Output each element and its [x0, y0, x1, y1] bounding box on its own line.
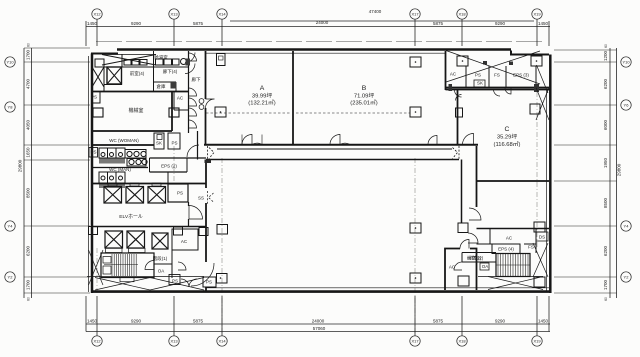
- NE room divider FS|EPS3: [505, 66, 507, 88]
- svg-text:廊下(4): 廊下(4): [163, 68, 178, 75]
- svg-text:60: 60: [27, 297, 31, 301]
- C room left wall: [457, 90, 459, 145]
- svg-text:60: 60: [604, 44, 608, 48]
- NE room divider AC|PS: [465, 66, 467, 88]
- WC corridor door: [187, 145, 199, 157]
- svg-text:71.09坪: 71.09坪: [354, 92, 375, 100]
- bottom dim stems: [85, 296, 87, 332]
- svg-text:C: C: [505, 126, 510, 133]
- svg-text:PS: PS: [172, 279, 178, 284]
- C room top wall: [446, 89, 551, 91]
- svg-text:4700: 4700: [26, 78, 31, 89]
- wall right of B / NE core left: [445, 51, 447, 90]
- hall wall columns: [89, 227, 98, 235]
- svg-text:Y10: Y10: [622, 60, 630, 65]
- svg-text:Y2: Y2: [8, 275, 14, 280]
- svg-text:(235.01㎡): (235.01㎡): [350, 99, 377, 107]
- WC man stalls: [99, 172, 125, 183]
- fixtures row kitchenette: [124, 60, 131, 66]
- AC SE room door: [460, 240, 469, 249]
- brace X left: [92, 67, 104, 87]
- svg-text:1950: 1950: [603, 157, 608, 168]
- svg-text:X18: X18: [458, 339, 466, 344]
- svg-text:Y6: Y6: [624, 103, 630, 108]
- svg-text:PS: PS: [171, 141, 177, 146]
- svg-text:X12: X12: [93, 12, 101, 17]
- AC room east of machine room: [174, 109, 189, 111]
- SE core top wall: [477, 228, 550, 230]
- svg-text:倉庫: 倉庫: [157, 83, 166, 90]
- door A left wall: [206, 99, 215, 108]
- svg-text:AC: AC: [506, 236, 513, 241]
- elevator shaft 2: [126, 187, 144, 204]
- exterior wall left thin outer: [88, 56, 90, 292]
- shaft top-left with X: [107, 67, 122, 84]
- right main dim line: [609, 48, 611, 298]
- dashed interior lines: [206, 112, 410, 114]
- svg-text:DS: DS: [539, 235, 545, 240]
- svg-text:X17: X17: [411, 12, 419, 17]
- corridor doors C area: [455, 90, 462, 97]
- left dim ticks: [24, 47, 90, 49]
- brace X left low: [89, 250, 104, 285]
- elevator shaft 6: [152, 233, 168, 249]
- bottom total dim line: [86, 331, 550, 333]
- svg-text:ELVホール: ELVホール: [119, 214, 143, 220]
- svg-text:Y2: Y2: [624, 275, 630, 280]
- NE door arc below wall: [505, 88, 511, 94]
- svg-text:6200: 6200: [26, 245, 31, 256]
- svg-text:8500: 8500: [26, 187, 31, 198]
- left main dim line: [31, 48, 33, 298]
- big arc door bottom central left: [191, 263, 214, 286]
- grid line X17 vertical dash: [414, 158, 416, 334]
- svg-text:EPS (4): EPS (4): [498, 247, 514, 252]
- svg-text:OA: OA: [482, 264, 489, 269]
- bottom band braces NW: [87, 277, 204, 291]
- WC woman stalls: [99, 148, 125, 158]
- svg-text:WC (MAN): WC (MAN): [109, 167, 131, 172]
- svg-text:6200: 6200: [603, 78, 608, 89]
- right total dim line: [616, 48, 618, 298]
- grid line X12 vertical dash: [96, 248, 98, 294]
- OA box SE: [480, 263, 489, 270]
- central space left wall: [205, 161, 207, 188]
- svg-text:PS: PS: [475, 73, 481, 78]
- svg-text:5875: 5875: [433, 319, 444, 324]
- svg-text:6000: 6000: [603, 119, 608, 130]
- vent boxes above shafts: [108, 183, 117, 186]
- svg-text:24000: 24000: [312, 319, 325, 324]
- NE right brace X: [536, 88, 549, 121]
- anteroom2 walls: [462, 252, 496, 254]
- svg-text:1650: 1650: [26, 147, 31, 158]
- svg-text:6200: 6200: [603, 245, 608, 256]
- svg-text:AC: AC: [449, 265, 456, 270]
- SK room box: [154, 133, 164, 149]
- grid line X13 vertical dash: [173, 146, 175, 184]
- svg-text:1450: 1450: [87, 319, 98, 324]
- grid bubbles bottom: [92, 336, 102, 346]
- svg-text:5875: 5875: [193, 319, 204, 324]
- svg-text:Y10: Y10: [6, 60, 14, 65]
- top-left X brace band: [102, 55, 156, 66]
- svg-text:9290: 9290: [495, 21, 506, 26]
- A room wall unit: [217, 54, 226, 66]
- interior main walls: [204, 51, 550, 292]
- svg-text:階段(1): 階段(1): [153, 255, 168, 262]
- grid bubbles right: [621, 57, 631, 67]
- AC room inner walls: [489, 229, 491, 245]
- dimension texts bottom: [87, 319, 549, 332]
- SE core AC room: [445, 249, 460, 291]
- kitchenette door: [189, 53, 197, 61]
- svg-text:SK: SK: [477, 81, 483, 86]
- svg-text:PS: PS: [91, 95, 97, 100]
- DS box: [536, 232, 548, 241]
- dimension texts top: [87, 9, 549, 26]
- grid bubbles left: [5, 57, 15, 67]
- door wedges NE: [483, 61, 487, 65]
- svg-text:SS: SS: [198, 196, 204, 201]
- kitchenette walls: [104, 66, 189, 68]
- elevator shaft 4: [105, 231, 123, 248]
- svg-text:PS: PS: [206, 280, 212, 285]
- PS box bottom center: [203, 277, 216, 287]
- svg-text:WC (WOMAN): WC (WOMAN): [109, 138, 139, 143]
- svg-text:60: 60: [27, 43, 31, 47]
- woman counter band: [99, 159, 125, 164]
- corridor door SE lower: [468, 233, 478, 243]
- svg-text:9290: 9290: [495, 319, 506, 324]
- dimension texts left (rotated): [18, 43, 31, 301]
- elevator shaft 3: [148, 187, 166, 204]
- bottom main dim line: [86, 323, 550, 325]
- stair2 outline: [496, 254, 530, 277]
- anteroom4 walls: [103, 67, 105, 92]
- svg-text:Y8: Y8: [8, 105, 14, 110]
- EPS4 room box: [492, 244, 520, 254]
- machine room columns: [93, 108, 103, 117]
- elevator shaft 5: [127, 231, 145, 248]
- anteroom2 door: [454, 262, 462, 270]
- svg-text:4050: 4050: [26, 119, 31, 130]
- svg-text:X13: X13: [170, 12, 178, 17]
- wall left of A (corridor east wall): [205, 51, 207, 99]
- svg-text:OA: OA: [158, 269, 165, 274]
- wall below man wc: [92, 183, 206, 185]
- svg-text:AC: AC: [177, 96, 184, 101]
- svg-text:29800: 29800: [617, 163, 622, 176]
- exterior wall NE step: [511, 51, 549, 55]
- WC block: [92, 133, 206, 188]
- grid line X19 vertical dash in C: [536, 92, 538, 248]
- central band upper line: [217, 148, 452, 150]
- svg-text:1450: 1450: [538, 21, 549, 26]
- svg-text:29800: 29800: [18, 159, 23, 172]
- C room bottom wall: [477, 180, 549, 182]
- NE room divider EPS3 right: [535, 66, 537, 88]
- FS room: [524, 243, 536, 245]
- NE room divider PS|FS: [488, 66, 490, 88]
- svg-text:X12: X12: [93, 339, 101, 344]
- ELV hall corridor door: [189, 206, 203, 220]
- SE corridor wall vertical outer: [476, 146, 478, 207]
- svg-text:5875: 5875: [433, 21, 444, 26]
- stair1 room outline: [101, 253, 154, 278]
- svg-text:B: B: [362, 85, 367, 92]
- NE X brace: [446, 51, 540, 85]
- svg-text:X19: X19: [533, 339, 541, 344]
- SE bottom band braces: [478, 277, 543, 290]
- exterior wall right thick: [549, 55, 552, 294]
- svg-text:35.29坪: 35.29坪: [497, 133, 518, 141]
- corridor dark shaft box: [186, 59, 191, 66]
- dimension texts right (rotated): [603, 44, 622, 301]
- svg-text:EPS (3): EPS (3): [513, 73, 529, 78]
- exterior wall bottom thick: [92, 290, 550, 293]
- stair1 anteroom walls: [153, 253, 155, 278]
- central band lower wall: [206, 159, 459, 161]
- corridor fountain circles: [199, 99, 204, 110]
- double door B bottom: [330, 135, 350, 145]
- svg-text:X19: X19: [533, 12, 541, 17]
- svg-text:Y4: Y4: [8, 224, 14, 229]
- NE shaft strip diagonal: [537, 65, 549, 93]
- exterior wall top-left step: [91, 53, 118, 55]
- svg-text:9290: 9290: [131, 21, 142, 26]
- exterior wall top inner thin: [206, 52, 445, 54]
- svg-text:1700: 1700: [26, 49, 31, 60]
- svg-text:1450: 1450: [87, 21, 98, 26]
- wall between A and B: [292, 51, 294, 144]
- svg-text:FS: FS: [494, 73, 500, 78]
- svg-text:47400: 47400: [369, 9, 382, 14]
- svg-text:EPS (2): EPS (2): [161, 164, 177, 169]
- AC room NW low: [172, 229, 198, 250]
- svg-text:PS: PS: [177, 191, 183, 196]
- svg-text:AC: AC: [181, 239, 188, 244]
- stair1 treads: [104, 254, 138, 276]
- SS opening chevron: [208, 191, 214, 204]
- stair2 treads: [496, 254, 530, 276]
- svg-text:X14: X14: [218, 339, 226, 344]
- right dim ticks: [554, 49, 617, 51]
- svg-text:9290: 9290: [131, 319, 142, 324]
- svg-text:5875: 5875: [193, 21, 204, 26]
- door B bottom right: [428, 136, 437, 145]
- PS box near stair: [169, 275, 197, 288]
- svg-text:57060: 57060: [313, 326, 326, 331]
- exterior wall bottom thin inner: [206, 287, 549, 289]
- corridor wall stubs: [188, 202, 190, 206]
- PS room right of elevators: [168, 184, 188, 202]
- svg-text:(116.68㎡): (116.68㎡): [494, 140, 521, 148]
- opening chevron right: [453, 146, 460, 160]
- svg-text:1450: 1450: [538, 319, 549, 324]
- double door A bottom: [242, 135, 262, 145]
- top main dim line: [86, 26, 550, 28]
- top total dim line 47400: [230, 20, 534, 22]
- WC divider wall: [92, 167, 148, 169]
- column dots: [220, 60, 538, 279]
- small PS box left top: [95, 59, 104, 67]
- SE corridor wall vertical inner: [461, 160, 463, 224]
- corridor doors NW scallops: [185, 53, 195, 63]
- wall bottom of A and B: [204, 144, 478, 146]
- svg-text:PS: PS: [90, 150, 96, 155]
- svg-text:X14: X14: [218, 12, 226, 17]
- svg-text:廊下: 廊下: [192, 76, 201, 83]
- machine room walls: [92, 91, 188, 93]
- svg-text:給湯室: 給湯室: [154, 54, 168, 61]
- svg-text:Y4: Y4: [624, 224, 630, 229]
- svg-text:前室(4): 前室(4): [130, 70, 145, 77]
- svg-text:前室(2): 前室(2): [467, 255, 482, 262]
- man urinal band: [99, 184, 125, 189]
- svg-text:機械室: 機械室: [129, 107, 144, 114]
- EPS2 room walls: [150, 157, 207, 159]
- svg-text:SK: SK: [156, 141, 162, 146]
- svg-text:A: A: [260, 85, 265, 92]
- svg-text:X13: X13: [170, 339, 178, 344]
- Elevator bank upper: [87, 183, 208, 290]
- svg-text:1700: 1700: [603, 279, 608, 290]
- hall bottom wall: [92, 226, 206, 228]
- sinks rows: [125, 150, 146, 159]
- svg-text:FS: FS: [528, 245, 534, 250]
- svg-text:1200: 1200: [603, 50, 608, 61]
- WC block top wall: [92, 144, 154, 146]
- svg-text:(132.21㎡): (132.21㎡): [248, 99, 275, 107]
- top dim stems: [85, 21, 87, 46]
- SK box: [474, 80, 485, 87]
- elevator shaft 1: [104, 187, 122, 204]
- corridor door SE upper: [469, 208, 481, 220]
- svg-text:24000: 24000: [316, 20, 329, 25]
- SE right braces: [533, 243, 548, 277]
- svg-text:39.99坪: 39.99坪: [252, 92, 273, 100]
- svg-text:1700: 1700: [26, 279, 31, 290]
- NE small dark box: [534, 84, 539, 92]
- exterior wall right thin outer: [546, 90, 548, 291]
- svg-text:X17: X17: [411, 339, 419, 344]
- setback phantom line top: [96, 41, 546, 43]
- grid line X14 vertical dash: [221, 158, 223, 334]
- exterior wall top thick: [117, 48, 511, 51]
- left total dim line: [23, 48, 25, 298]
- NE core rooms bottom wall: [445, 87, 549, 89]
- svg-text:8500: 8500: [603, 197, 608, 208]
- exterior wall left thick: [91, 54, 94, 294]
- PS room machine corner: [92, 92, 100, 103]
- opening chevron left: [205, 146, 215, 163]
- svg-text:X18: X18: [458, 12, 466, 17]
- stair1 door: [145, 261, 154, 270]
- svg-text:60: 60: [604, 297, 608, 301]
- svg-text:AC: AC: [450, 72, 457, 77]
